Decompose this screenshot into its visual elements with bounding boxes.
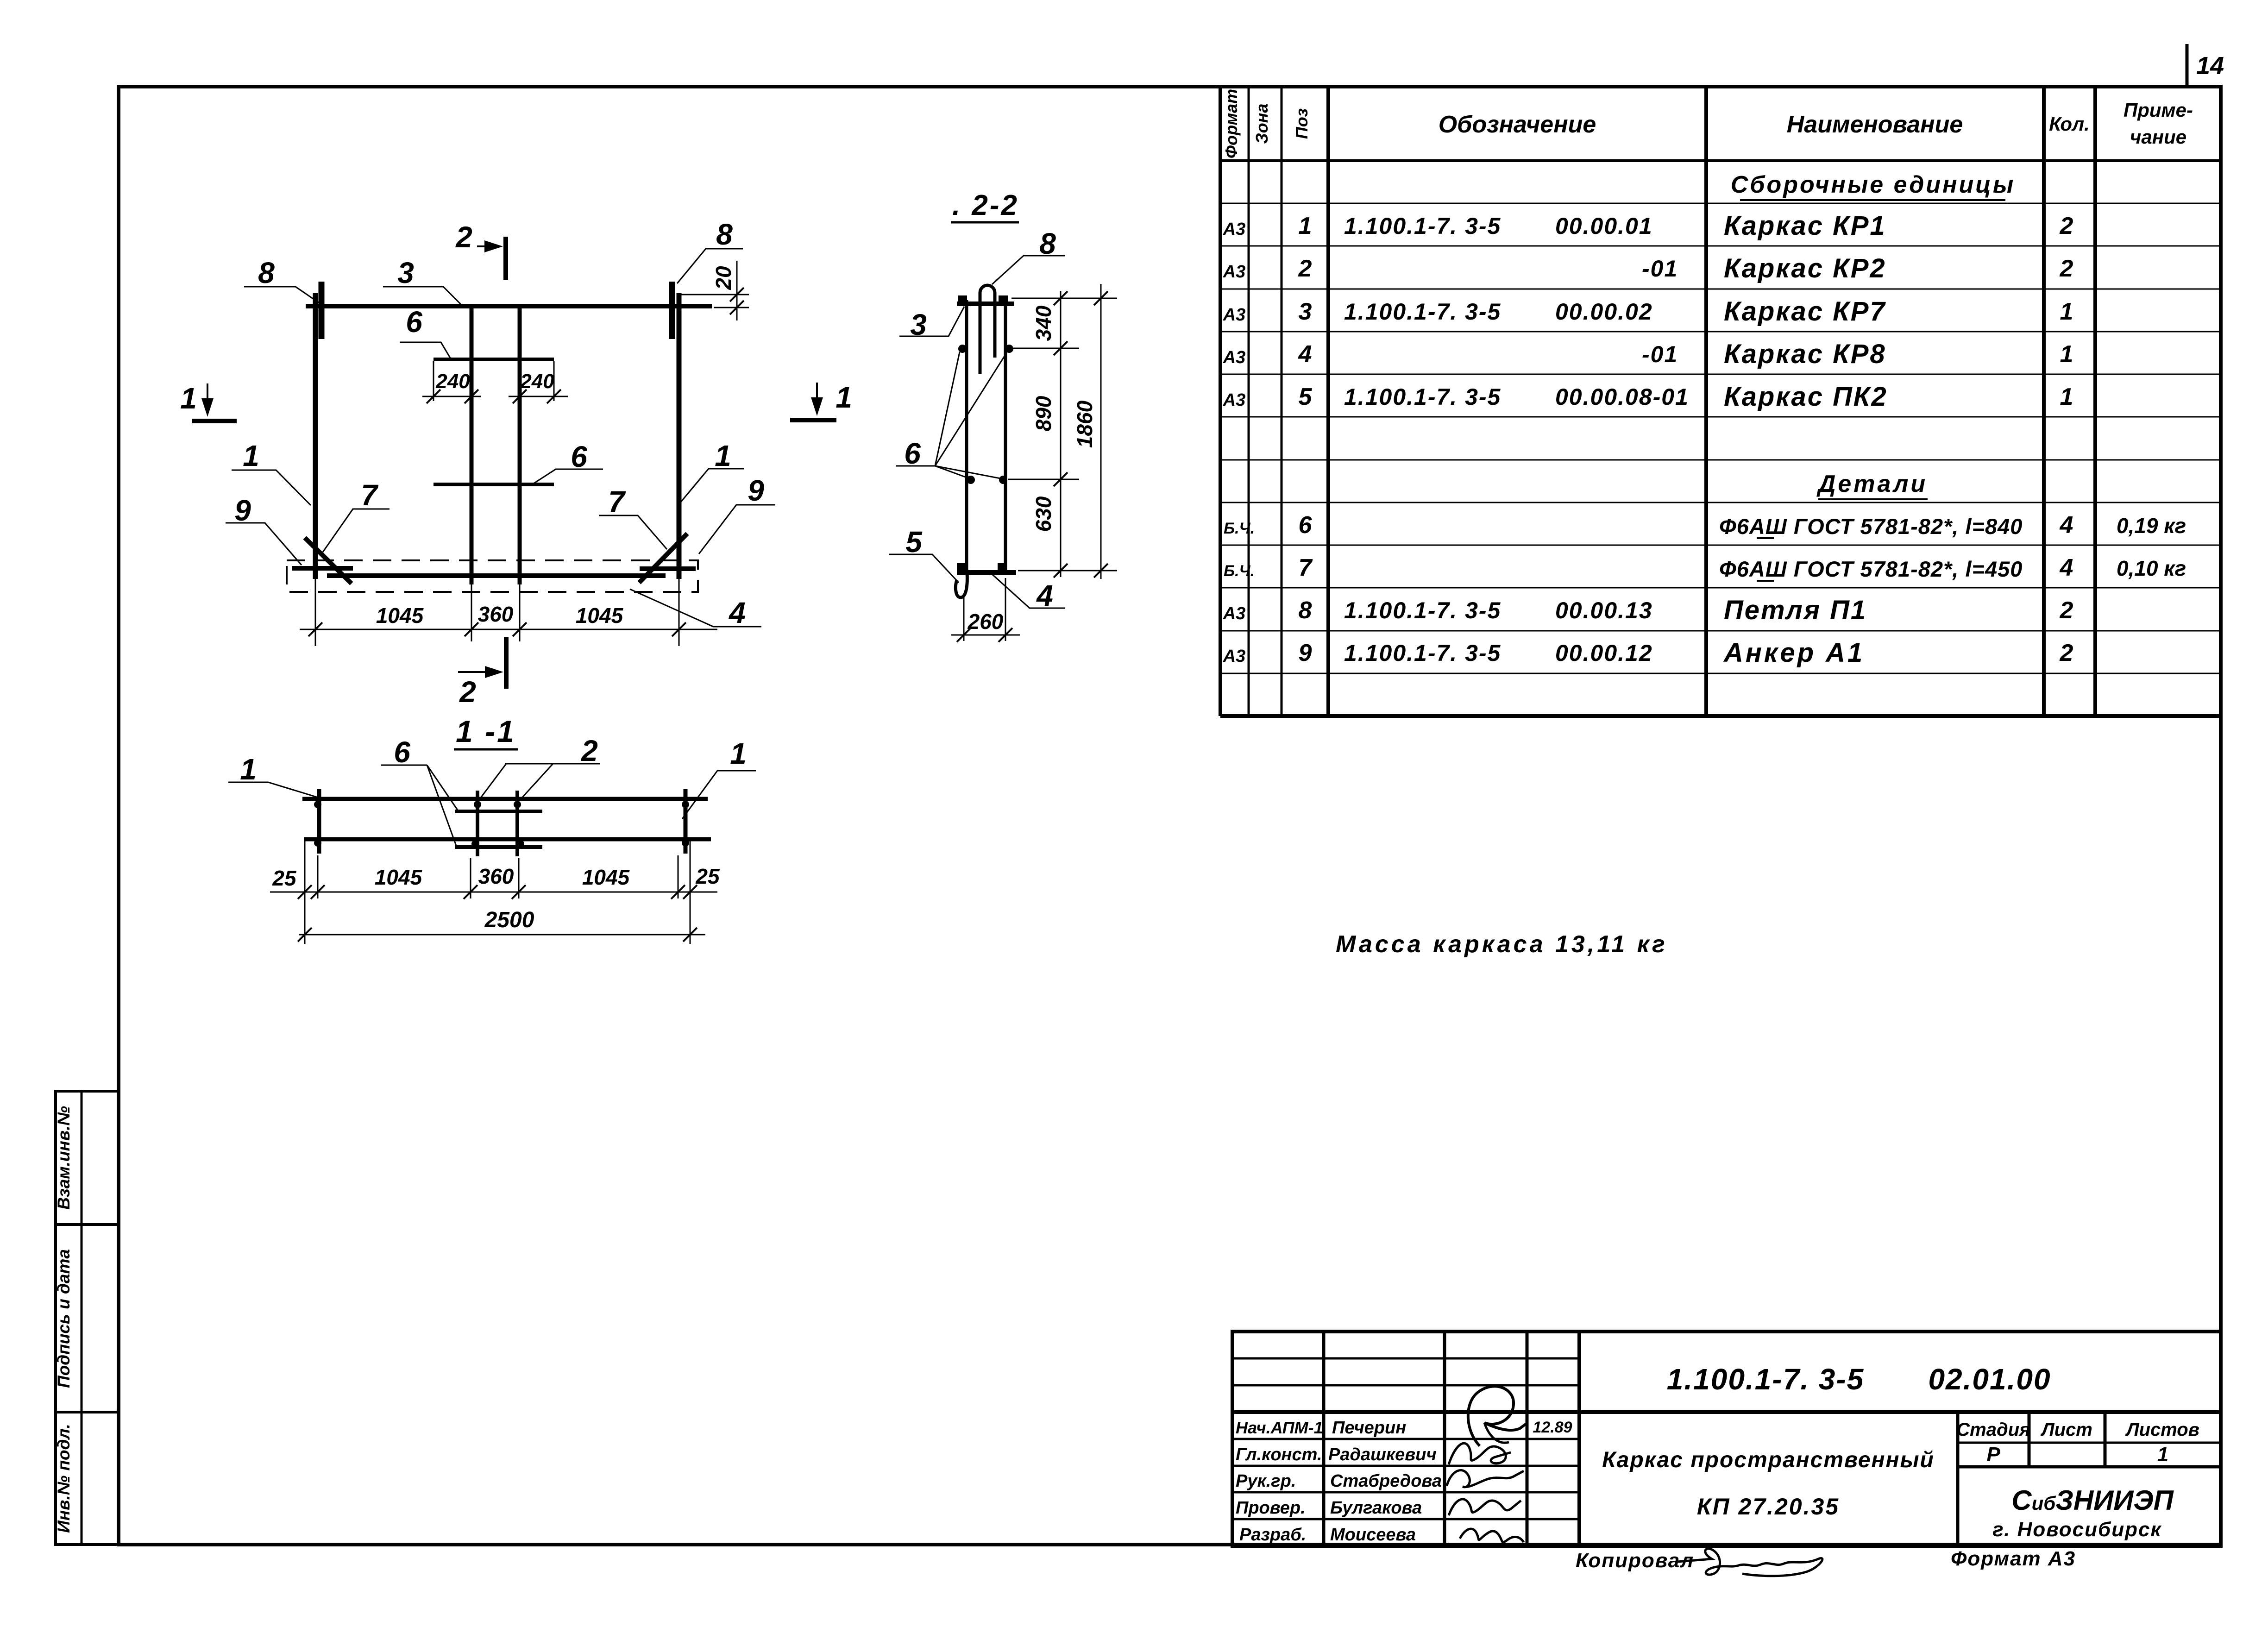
section 1-1: label 1 right with leader bbox=[682, 737, 756, 819]
svg-text:1045: 1045 bbox=[576, 603, 624, 628]
main view: label 1 left with leader bbox=[232, 439, 311, 505]
svg-text:12.89: 12.89 bbox=[1533, 1419, 1572, 1436]
svg-text:Каркас КР7: Каркас КР7 bbox=[1724, 296, 1886, 327]
svg-text:1: 1 bbox=[243, 439, 259, 472]
svg-text:Ф6АШ ГОСТ 5781-82*, l=840: Ф6АШ ГОСТ 5781-82*, l=840 bbox=[1719, 514, 2023, 539]
svg-text:1.100.1-7. 3-5: 1.100.1-7. 3-5 bbox=[1344, 213, 1501, 239]
svg-text:Рук.гр.: Рук.гр. bbox=[1236, 1471, 1296, 1491]
svg-text:1.100.1-7. 3-5: 1.100.1-7. 3-5 bbox=[1667, 1363, 1865, 1396]
svg-text:Подпись и дата: Подпись и дата bbox=[54, 1249, 73, 1388]
svg-text:9: 9 bbox=[748, 474, 764, 507]
svg-text:2: 2 bbox=[581, 734, 598, 767]
section 1-1: rebar top long bar bbox=[302, 797, 708, 801]
svg-text:1: 1 bbox=[240, 753, 257, 786]
svg-text:1: 1 bbox=[1299, 213, 1312, 239]
main view: section mark 1 left bbox=[180, 382, 237, 421]
svg-text:Анкер А1: Анкер А1 bbox=[1723, 638, 1865, 668]
svg-text:Каркас ПК2: Каркас ПК2 bbox=[1724, 382, 1888, 412]
svg-text:2: 2 bbox=[2060, 640, 2073, 666]
footer: Копировал with signature bbox=[1576, 1549, 1822, 1576]
section 2-2: label 6 with leaders bbox=[896, 352, 1006, 478]
svg-text:6: 6 bbox=[1299, 512, 1313, 539]
svg-text:1: 1 bbox=[730, 737, 747, 770]
svg-text:1: 1 bbox=[2060, 298, 2073, 325]
main view: anchor item 7 right diagonal bar bbox=[639, 534, 687, 583]
title block: signature Булгакова bbox=[1449, 1499, 1521, 1515]
svg-text:1045: 1045 bbox=[376, 603, 424, 628]
svg-text:Обозначение: Обозначение bbox=[1439, 111, 1596, 138]
svg-text:7: 7 bbox=[361, 478, 379, 512]
section 2-2: lifting loop item 8 hairpin bbox=[980, 285, 995, 374]
svg-text:2: 2 bbox=[459, 675, 476, 709]
page number 14 tick bbox=[2186, 44, 2189, 87]
section 1-1: item 6 upper tie bar bbox=[455, 810, 542, 813]
svg-text:240: 240 bbox=[435, 370, 470, 393]
svg-text:А3: А3 bbox=[1223, 390, 1246, 410]
svg-text:5: 5 bbox=[1299, 383, 1313, 410]
svg-text:КП 27.20.35: КП 27.20.35 bbox=[1697, 1494, 1840, 1520]
section 2-2: label 8 with leader bbox=[992, 227, 1065, 284]
svg-text:4: 4 bbox=[2060, 512, 2073, 539]
svg-text:. 2-2: . 2-2 bbox=[952, 189, 1019, 221]
section 1-1: item 2 middle vertical bar right bbox=[515, 791, 519, 856]
page number 14 bbox=[2196, 52, 2224, 80]
table row 2: Каркас КР2 bbox=[1223, 253, 2073, 283]
left stamp box: Подпись и дата bbox=[54, 1225, 119, 1412]
svg-text:Провер.: Провер. bbox=[1236, 1498, 1306, 1518]
title block grid bbox=[1232, 1332, 2221, 1546]
svg-text:1.100.1-7. 3-5: 1.100.1-7. 3-5 bbox=[1344, 299, 1501, 325]
section 2-2: rebar right vertical bar bbox=[1004, 300, 1007, 573]
svg-text:1 -1: 1 -1 bbox=[456, 714, 516, 748]
section 1-1: label 1 left with leader bbox=[228, 753, 317, 797]
main view: section mark 2 top bbox=[455, 220, 506, 280]
svg-text:00.00.01: 00.00.01 bbox=[1555, 213, 1653, 239]
svg-text:Формат: Формат bbox=[1222, 89, 1241, 158]
svg-text:Ф6АШ ГОСТ 5781-82*, l=450: Ф6АШ ГОСТ 5781-82*, l=450 bbox=[1719, 557, 2023, 581]
svg-text:Кол.: Кол. bbox=[2049, 113, 2090, 135]
svg-text:Масса каркаса 13,11 кг: Масса каркаса 13,11 кг bbox=[1336, 931, 1668, 958]
svg-text:2: 2 bbox=[2060, 597, 2073, 624]
svg-text:1045: 1045 bbox=[375, 865, 423, 889]
section 2-2: hook item 5 bbox=[955, 572, 967, 597]
section 1-1: item 6 lower tie bar bbox=[455, 845, 542, 849]
svg-text:А3: А3 bbox=[1223, 647, 1246, 666]
table row 4: Каркас КР8 bbox=[1223, 339, 2073, 369]
svg-text:Поз: Поз bbox=[1292, 108, 1311, 139]
svg-text:Каркас КР2: Каркас КР2 bbox=[1724, 253, 1886, 283]
main view: rebar item 1 left vertical bar bbox=[313, 293, 318, 579]
svg-text:8: 8 bbox=[1299, 597, 1312, 624]
main view: rebar item 4 bottom bar bbox=[327, 573, 666, 578]
svg-text:Петля П1: Петля П1 bbox=[1724, 595, 1867, 625]
main view: label 8 left with leader bbox=[244, 256, 320, 304]
main view: rebar item 1 right vertical bar bbox=[677, 293, 682, 579]
section 2-2: corner bar sections bbox=[957, 295, 1008, 572]
svg-text:Р: Р bbox=[1986, 1443, 2000, 1466]
svg-text:4: 4 bbox=[2060, 554, 2073, 581]
svg-text:0,19 кг: 0,19 кг bbox=[2117, 514, 2186, 538]
svg-text:Инв.№ подл.: Инв.№ подл. bbox=[54, 1424, 73, 1533]
svg-text:-01: -01 bbox=[1642, 341, 1678, 367]
svg-text:1045: 1045 bbox=[582, 865, 630, 889]
svg-text:Стабредова: Стабредова bbox=[1330, 1471, 1442, 1491]
specification table grid bbox=[1220, 87, 2221, 716]
svg-text:чание: чание bbox=[2130, 126, 2186, 148]
main view: lifting loop item 8 right bbox=[669, 282, 675, 339]
svg-text:Разраб.: Разраб. bbox=[1239, 1525, 1306, 1545]
left stamp box: Инв.№ подл. bbox=[54, 1412, 119, 1545]
svg-text:2: 2 bbox=[455, 220, 472, 254]
title block: document number bbox=[1667, 1363, 2051, 1396]
main view: label 6 lower with leader bbox=[534, 440, 603, 484]
main view: label 1 right with leader bbox=[680, 439, 744, 503]
svg-text:630: 630 bbox=[1031, 496, 1055, 532]
svg-text:1: 1 bbox=[836, 381, 852, 414]
svg-text:Каркас пространственный: Каркас пространственный bbox=[1602, 1448, 1935, 1472]
svg-text:г. Новосибирск: г. Новосибирск bbox=[1992, 1518, 2162, 1541]
table row 1: Каркас КР1 bbox=[1223, 211, 2073, 241]
svg-text:1: 1 bbox=[180, 382, 197, 415]
svg-text:Взам.инв.№: Взам.инв.№ bbox=[54, 1106, 73, 1210]
svg-text:1860: 1860 bbox=[1073, 400, 1097, 448]
main view: label 7 left with leader bbox=[323, 478, 390, 552]
section 1-1 title bbox=[454, 714, 518, 749]
svg-text:Б.Ч.: Б.Ч. bbox=[1224, 562, 1255, 580]
table section header: Сборочные единицы bbox=[1731, 171, 2016, 200]
title block: signature Моисеева bbox=[1460, 1529, 1524, 1542]
svg-text:Гл.конст.: Гл.конст. bbox=[1236, 1445, 1322, 1464]
main view: rebar item 2 middle vertical bar right bbox=[518, 304, 522, 584]
svg-text:260: 260 bbox=[968, 609, 1004, 634]
svg-text:Моисеева: Моисеева bbox=[1330, 1525, 1416, 1545]
table row 7: Ф6АIII l=450 bbox=[1224, 554, 2186, 581]
svg-text:1.100.1-7. 3-5: 1.100.1-7. 3-5 bbox=[1344, 597, 1501, 623]
section 2-2: item 6 tie bar sections (dots) bbox=[958, 345, 1013, 484]
svg-text:Приме-: Приме- bbox=[2124, 99, 2193, 121]
svg-text:25: 25 bbox=[695, 864, 720, 888]
svg-text:0,10 кг: 0,10 кг bbox=[2117, 556, 2186, 580]
main view: dimension 20 top right bbox=[681, 261, 749, 320]
svg-text:25: 25 bbox=[272, 866, 297, 890]
section 1-1: label 6 with leaders bbox=[381, 735, 458, 846]
svg-text:1: 1 bbox=[2060, 383, 2073, 410]
table row 9: Анкер А1 bbox=[1223, 638, 2073, 668]
section 1-1: item 2 middle vertical bar left bbox=[476, 791, 479, 856]
svg-text:Лист: Лист bbox=[2040, 1420, 2092, 1440]
svg-text:Стадия: Стадия bbox=[1956, 1420, 2030, 1440]
main view: lifting loop item 8 left bbox=[319, 282, 325, 339]
svg-text:6: 6 bbox=[571, 440, 587, 473]
svg-text:А3: А3 bbox=[1223, 262, 1246, 282]
svg-text:9: 9 bbox=[234, 494, 251, 527]
svg-text:00.00.02: 00.00.02 bbox=[1555, 299, 1653, 325]
main view: anchor item 9 right horizontal bar bbox=[640, 566, 696, 571]
svg-text:6: 6 bbox=[904, 437, 921, 470]
svg-text:360: 360 bbox=[478, 864, 514, 888]
section 1-1: rebar bottom long bar bbox=[304, 837, 711, 842]
svg-text:1: 1 bbox=[2060, 341, 2073, 368]
svg-text:Формат А3: Формат А3 bbox=[1951, 1547, 2076, 1570]
table row 6: Ф6АIII l=840 bbox=[1224, 512, 2186, 539]
main view: section mark 2 bottom bbox=[458, 637, 506, 709]
section 2-2: rebar item 4 bottom bar end view bbox=[957, 570, 1016, 575]
section 2-2: rebar item 3 top bar end view bbox=[957, 302, 1014, 306]
title block: roles column bbox=[1236, 1418, 1323, 1545]
svg-text:Каркас КР8: Каркас КР8 bbox=[1724, 339, 1886, 369]
svg-text:2: 2 bbox=[2060, 213, 2073, 239]
title block: names column bbox=[1328, 1418, 1442, 1545]
title block: date bbox=[1533, 1419, 1572, 1436]
section 2-2: rebar left vertical bar bbox=[965, 300, 968, 573]
svg-text:Нач.АПМ-1: Нач.АПМ-1 bbox=[1236, 1418, 1323, 1437]
section 1-1: bar crossing dots bbox=[314, 801, 689, 848]
section 2-2: right dimensions 340 890 630 1860 bbox=[1008, 284, 1117, 579]
svg-text:А3: А3 bbox=[1223, 305, 1246, 325]
table row 8: Петля П1 bbox=[1223, 595, 2073, 625]
svg-text:20: 20 bbox=[711, 266, 735, 290]
svg-text:00.00.08-01: 00.00.08-01 bbox=[1555, 384, 1689, 410]
svg-text:Каркас КР1: Каркас КР1 bbox=[1724, 211, 1886, 241]
svg-text:А3: А3 bbox=[1223, 604, 1246, 623]
svg-text:02.01.00: 02.01.00 bbox=[1928, 1363, 2051, 1396]
section 2-2: label 3 with leader bbox=[899, 307, 964, 341]
section 2-2: label 4 with leader bbox=[991, 573, 1065, 612]
title block: organization bbox=[1992, 1485, 2174, 1541]
main view: section mark 1 right bbox=[790, 381, 852, 420]
svg-text:3: 3 bbox=[1299, 298, 1312, 325]
main view: dimension 240 240 between ties bbox=[422, 361, 568, 403]
svg-text:2: 2 bbox=[1298, 255, 1312, 282]
svg-text:7: 7 bbox=[608, 485, 626, 518]
svg-text:6: 6 bbox=[406, 305, 422, 339]
svg-text:1.100.1-7. 3-5: 1.100.1-7. 3-5 bbox=[1344, 640, 1501, 666]
svg-text:00.00.12: 00.00.12 bbox=[1555, 640, 1653, 666]
svg-text:8: 8 bbox=[258, 256, 275, 289]
section 1-1: label 2 with leaders bbox=[478, 734, 600, 801]
left stamp box: Взам.инв.№ bbox=[54, 1091, 119, 1225]
main view: dashed outline of plank item 4 bbox=[287, 560, 698, 592]
svg-text:8: 8 bbox=[716, 218, 733, 251]
section 1-1: dimensions 25 1045 360 1045 25 bbox=[270, 841, 720, 944]
svg-text:Копировал: Копировал bbox=[1576, 1549, 1694, 1572]
svg-text:Печерин: Печерин bbox=[1332, 1418, 1406, 1438]
title block: part name bbox=[1602, 1448, 1935, 1520]
table section header: Детали bbox=[1816, 471, 1928, 499]
svg-text:Зона: Зона bbox=[1252, 104, 1271, 144]
svg-text:Детали: Детали bbox=[1816, 471, 1928, 497]
svg-text:1: 1 bbox=[715, 439, 731, 472]
main view: rebar item 3 top bar bbox=[306, 304, 712, 308]
svg-text:340: 340 bbox=[1031, 305, 1055, 341]
main view: label 9 right with leader bbox=[699, 474, 775, 554]
table row 3: Каркас КР7 bbox=[1223, 296, 2073, 327]
svg-text:4: 4 bbox=[728, 596, 746, 629]
svg-text:А3: А3 bbox=[1223, 220, 1246, 239]
svg-text:2: 2 bbox=[2060, 255, 2073, 282]
svg-text:00.00.13: 00.00.13 bbox=[1555, 597, 1653, 623]
table row 5: Каркас ПК2 bbox=[1223, 382, 2073, 412]
title block: signature Печерин bbox=[1468, 1386, 1527, 1446]
section 1-1: right cross bar bbox=[684, 789, 688, 854]
svg-text:3: 3 bbox=[397, 256, 414, 289]
svg-text:2500: 2500 bbox=[484, 908, 534, 932]
svg-text:-01: -01 bbox=[1642, 256, 1678, 282]
main view: label 8 right with leader bbox=[677, 218, 743, 283]
svg-text:А3: А3 bbox=[1223, 348, 1246, 367]
table header labels bbox=[1222, 89, 2193, 158]
svg-text:6: 6 bbox=[394, 735, 410, 769]
title block: stage grid labels bbox=[1956, 1420, 2199, 1466]
mass note bbox=[1336, 931, 1668, 958]
main view: label 6 upper with leader bbox=[400, 305, 451, 359]
section 2-2 title bbox=[951, 189, 1019, 222]
main view: rebar item 2 middle vertical bar left bbox=[470, 304, 474, 584]
main view: rebar item 6 lower tie bar bbox=[433, 483, 554, 486]
svg-text:5: 5 bbox=[905, 525, 923, 559]
svg-text:360: 360 bbox=[478, 602, 514, 626]
svg-text:1: 1 bbox=[2157, 1443, 2168, 1466]
svg-text:4: 4 bbox=[1036, 579, 1053, 612]
svg-text:Листов: Листов bbox=[2125, 1420, 2199, 1440]
section 2-2: bottom dimension 260 bbox=[951, 578, 1020, 642]
svg-text:1.100.1-7. 3-5: 1.100.1-7. 3-5 bbox=[1344, 384, 1501, 410]
svg-text:Радашкевич: Радашкевич bbox=[1328, 1445, 1437, 1464]
svg-text:14: 14 bbox=[2196, 52, 2224, 80]
svg-text:4: 4 bbox=[1298, 341, 1312, 368]
main view: label 7 right with leader bbox=[599, 485, 667, 549]
section 1-1: left cross bar bbox=[317, 789, 321, 854]
title block: signature Стабредова bbox=[1447, 1470, 1524, 1487]
svg-text:Сборочные единицы: Сборочные единицы bbox=[1731, 171, 2016, 198]
main view: label 9 left with leader bbox=[226, 494, 302, 565]
main view: anchor item 9 left horizontal bar bbox=[292, 566, 353, 571]
svg-text:890: 890 bbox=[1031, 396, 1055, 431]
footer: Формат А3 bbox=[1951, 1547, 2076, 1570]
main view: anchor item 7 left diagonal bar bbox=[305, 538, 352, 584]
svg-text:Наименование: Наименование bbox=[1787, 111, 1963, 138]
main view: label 3 with leader bbox=[383, 256, 461, 305]
svg-text:9: 9 bbox=[1299, 640, 1312, 666]
svg-text:Б.Ч.: Б.Ч. bbox=[1224, 520, 1255, 537]
title block: signature Радашкевич bbox=[1449, 1443, 1511, 1464]
main view: label 4 with leader bbox=[630, 589, 761, 629]
main view: bottom dimension 1045 360 1045 bbox=[300, 579, 717, 646]
main view: rebar item 6 upper tie bar bbox=[433, 358, 554, 361]
svg-text:7: 7 bbox=[1299, 554, 1313, 581]
svg-text:240: 240 bbox=[520, 370, 554, 393]
section 1-1: overall dimension 2500 bbox=[298, 908, 705, 942]
section 2-2: label 5 with leader bbox=[889, 525, 959, 583]
svg-text:Булгакова: Булгакова bbox=[1330, 1498, 1422, 1518]
